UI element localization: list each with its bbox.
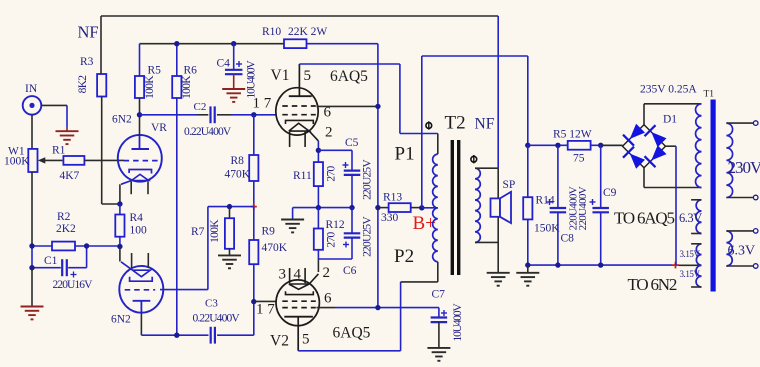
wire VR cathode down xyxy=(119,184,121,204)
label P1 xyxy=(395,144,415,165)
wire R7 top run xyxy=(208,207,254,290)
VR cathode xyxy=(121,170,152,185)
svg-text:270: 270 xyxy=(326,165,338,181)
T2 secondary winding xyxy=(475,168,498,242)
svg-text:R9: R9 xyxy=(262,226,276,238)
triode 6N2 (lower) envelope xyxy=(111,266,163,326)
svg-text:6N2: 6N2 xyxy=(112,114,132,126)
wire R3 to cathode node xyxy=(102,97,120,205)
svg-text:C3: C3 xyxy=(205,298,218,310)
wire cathode rail xyxy=(293,208,353,220)
wire B+ to filter xyxy=(527,56,529,145)
resistor R1 4K7 xyxy=(52,145,84,183)
T1 3.15V winding lower xyxy=(691,265,701,287)
ground (C7) xyxy=(427,348,450,361)
svg-text:D1: D1 xyxy=(663,114,677,126)
svg-text:T1: T1 xyxy=(704,90,715,100)
junction mark R8/R9 (red) xyxy=(251,204,257,210)
svg-text:IN: IN xyxy=(25,83,38,95)
ground (left bottom) xyxy=(21,307,44,320)
svg-text:100K: 100K xyxy=(209,219,221,243)
wire bridge + to rail xyxy=(601,144,623,146)
T1 6.3V heater winding xyxy=(691,200,701,234)
wire bridge AC bottom xyxy=(644,168,702,188)
VR grid (dashed) xyxy=(124,160,159,162)
capacitor C1 220U16V xyxy=(32,246,93,291)
resistor R3 8K2 xyxy=(77,56,106,97)
lower 6N2 cathode xyxy=(121,262,152,281)
wire filter top rail xyxy=(528,144,622,146)
svg-text:100K: 100K xyxy=(181,75,193,99)
svg-text:R14: R14 xyxy=(536,195,555,207)
svg-text:R11: R11 xyxy=(293,170,312,182)
T1 235V winding xyxy=(696,104,702,188)
wire plate to C2 xyxy=(140,114,209,116)
svg-text:220U25V: 220U25V xyxy=(362,159,374,200)
svg-text:100K: 100K xyxy=(4,156,30,168)
svg-text:220U400V: 220U400V xyxy=(577,186,589,230)
wire V1 screen to rail xyxy=(317,105,378,107)
node dot R11/rail xyxy=(316,205,321,210)
svg-text:R5 12W: R5 12W xyxy=(553,129,592,141)
wire NF top run xyxy=(101,16,498,74)
wire V2 cathode node xyxy=(318,250,352,272)
svg-text:R6: R6 xyxy=(184,65,198,77)
V1 heater pins xyxy=(290,132,306,147)
svg-text:270: 270 xyxy=(326,231,338,247)
lower 6N2 plate xyxy=(133,301,151,314)
svg-text:100: 100 xyxy=(130,225,148,237)
svg-text:22K 2W: 22K 2W xyxy=(288,26,327,38)
svg-text:10U400V: 10U400V xyxy=(452,303,464,342)
ground (C4) xyxy=(222,74,245,102)
T2 core xyxy=(452,140,458,275)
pentode V1 6AQ5 envelope xyxy=(271,67,369,135)
svg-text:330: 330 xyxy=(381,212,399,224)
capacitor C5 220U25V xyxy=(318,137,373,208)
wire jack to W1 xyxy=(31,115,33,149)
ground (R7) xyxy=(218,255,241,268)
node dot C9 top xyxy=(598,143,603,148)
wire speaker drop xyxy=(497,168,499,272)
label NF (top left) xyxy=(78,23,99,42)
T1 6.3V secondary winding xyxy=(726,229,758,269)
node dot R4 bottom xyxy=(117,244,122,249)
node dot R8 top xyxy=(251,112,256,117)
wire W1 bottom to R2 node xyxy=(31,172,33,246)
pentode V2 6AQ5 envelope xyxy=(270,280,371,349)
node dot plate/C2 xyxy=(137,112,142,117)
T1 3.15V center tap xyxy=(679,264,702,266)
svg-text:TO 6N2: TO 6N2 xyxy=(628,275,677,294)
svg-text:R10: R10 xyxy=(262,26,281,38)
node dot C5/rail xyxy=(349,205,354,210)
wire to ground left xyxy=(31,268,33,306)
svg-text:VR: VR xyxy=(151,122,167,134)
svg-text:R1: R1 xyxy=(52,145,66,157)
svg-text:6.3V: 6.3V xyxy=(679,211,702,225)
svg-text:5: 5 xyxy=(304,68,312,84)
svg-text:P1: P1 xyxy=(395,144,415,165)
capacitor C8 220U400V xyxy=(547,145,580,265)
T1 core xyxy=(711,100,716,292)
wire jack to ground tap xyxy=(41,105,67,127)
node dot R6/lower plate xyxy=(174,333,179,338)
label B+ (red) xyxy=(413,213,436,234)
resistor R13 330 xyxy=(378,192,422,224)
svg-text:6AQ5: 6AQ5 xyxy=(330,68,368,85)
svg-text:220U16V: 220U16V xyxy=(53,279,94,291)
svg-text:8K2: 8K2 xyxy=(77,75,89,94)
resistor R14 150K xyxy=(523,145,560,265)
capacitor C6 220U25V xyxy=(343,208,374,277)
wire R4 node to lower cathode xyxy=(119,247,121,262)
svg-text:C9: C9 xyxy=(603,187,617,199)
svg-text:75: 75 xyxy=(573,153,585,165)
svg-text:1 7: 1 7 xyxy=(256,301,275,317)
svg-text:3.15V: 3.15V xyxy=(680,269,701,279)
svg-text:4K7: 4K7 xyxy=(60,170,80,182)
node dot rail/C8 xyxy=(555,262,560,267)
node dot R7 top xyxy=(227,204,232,209)
svg-text:6.3V: 6.3V xyxy=(728,244,756,259)
svg-text:C7: C7 xyxy=(432,289,446,301)
potentiometer W1 100K xyxy=(4,146,38,173)
input jack IN xyxy=(23,83,42,115)
capacitor C3 0.22U400V xyxy=(193,298,241,344)
svg-text:10U400V: 10U400V xyxy=(246,60,258,99)
resistor R10 22K 2W xyxy=(262,26,327,48)
node dot V1 screen xyxy=(375,104,380,109)
capacitor C2 0.22U400V xyxy=(184,101,232,138)
svg-text:T2: T2 xyxy=(445,112,466,133)
node dot rail/C9 xyxy=(598,262,603,267)
V2 cathode xyxy=(286,274,319,295)
T2 phase dot (primary) xyxy=(426,121,432,129)
ground (input jack) xyxy=(56,127,79,144)
svg-text:TO 6AQ5: TO 6AQ5 xyxy=(614,209,674,228)
lower 6N2 grid (dashed) xyxy=(125,289,156,291)
svg-text:470K: 470K xyxy=(225,169,251,181)
svg-text:C1: C1 xyxy=(44,255,58,267)
label TO 6N2 xyxy=(628,275,677,294)
node dot R6 top xyxy=(174,41,179,46)
svg-text:V2: V2 xyxy=(270,332,289,349)
svg-text:C5: C5 xyxy=(345,137,359,149)
resistor R8 470K xyxy=(225,115,259,181)
svg-text:1 7: 1 7 xyxy=(253,96,272,112)
node dot V2 grid xyxy=(251,299,256,304)
resistor R2 2K2 xyxy=(52,211,76,250)
node dot W1/R2 xyxy=(29,243,34,248)
resistor R12 270 xyxy=(314,208,345,250)
VR heater pins xyxy=(131,182,148,195)
wire R2 row xyxy=(32,245,120,247)
W1 wiper arrow xyxy=(38,157,63,163)
ground (cathode rail) xyxy=(281,220,304,233)
svg-text:R2: R2 xyxy=(57,211,71,223)
svg-text:R5: R5 xyxy=(148,65,162,77)
capacitor C9 220U400V xyxy=(577,145,617,265)
svg-text:3: 3 xyxy=(279,267,287,283)
svg-text:P2: P2 xyxy=(394,246,414,267)
V1 screen grid (dashed) xyxy=(282,105,316,107)
V2 heater pins xyxy=(290,268,306,283)
svg-text:0.22U400V: 0.22U400V xyxy=(193,312,241,324)
T1 230V primary winding xyxy=(726,121,758,200)
svg-text:235V 0.25A: 235V 0.25A xyxy=(640,84,697,96)
wire B+ riser xyxy=(422,56,528,208)
label TO 6AQ5 xyxy=(614,209,674,228)
wire R9 bottom to grid node xyxy=(253,264,255,301)
svg-text:0.22U400V: 0.22U400V xyxy=(184,126,232,138)
svg-text:2: 2 xyxy=(325,125,333,141)
node dot C5 top xyxy=(316,148,321,153)
wire screen rail (R10 to V2) xyxy=(377,44,379,308)
V2 pin labels xyxy=(256,265,332,348)
resistor R6 100K xyxy=(172,44,197,99)
V1 pin labels xyxy=(253,68,333,141)
T2 primary winding xyxy=(422,134,438,282)
svg-text:220U25V: 220U25V xyxy=(362,216,374,257)
wire lower plate to C3 xyxy=(141,314,208,336)
wire C3 to V2 grid node xyxy=(217,302,254,336)
wire R5 to plate node xyxy=(139,98,141,136)
capacitor C4 10U400V xyxy=(217,44,258,99)
wire R8 bottom xyxy=(253,181,255,207)
wire V2 plate to P2 xyxy=(298,282,438,351)
svg-text:R7: R7 xyxy=(191,226,205,238)
resistor R4 100 xyxy=(115,204,147,247)
wire preamp B+ rail xyxy=(140,43,285,45)
label 235V 0.25A xyxy=(640,84,697,96)
svg-text:C6: C6 xyxy=(343,265,357,277)
label 6.3V (secondary) xyxy=(728,244,756,259)
capacitor C7 10U400V xyxy=(431,289,464,342)
svg-text:6: 6 xyxy=(324,290,332,306)
wire V1 plate to P1 xyxy=(299,64,437,134)
ground (PSU rail) xyxy=(516,265,539,286)
ground (speaker) xyxy=(487,273,510,286)
V1 control grid (dashed) xyxy=(282,114,316,116)
svg-text:R13: R13 xyxy=(383,192,402,204)
svg-text:C8: C8 xyxy=(561,233,575,245)
wire grid node to V2 xyxy=(254,300,277,302)
resistor R11 270 xyxy=(293,162,338,186)
V1 cathode xyxy=(286,120,319,140)
svg-text:R4: R4 xyxy=(130,212,144,224)
resistor R7 100K xyxy=(191,207,234,256)
V2 control grid (dashed) xyxy=(282,300,316,302)
V2 plate xyxy=(284,317,313,351)
svg-text:SP: SP xyxy=(503,179,516,191)
wire V1 cathode down xyxy=(317,141,319,162)
label P2 xyxy=(394,246,414,267)
svg-text:NF: NF xyxy=(475,115,495,132)
wire R6 to lower plate line xyxy=(176,98,178,335)
label T1 xyxy=(704,90,715,100)
svg-text:C2: C2 xyxy=(194,101,207,113)
wire C2 to V1 grid xyxy=(217,114,277,116)
svg-text:2K2: 2K2 xyxy=(56,223,76,235)
svg-text:5: 5 xyxy=(302,332,310,348)
svg-text:4: 4 xyxy=(294,267,302,283)
junction mark heater CT (red) xyxy=(672,262,679,269)
label T2 xyxy=(445,112,466,133)
node dot V2 screen xyxy=(375,305,380,310)
svg-text:470K: 470K xyxy=(262,242,288,254)
svg-text:3.15V: 3.15V xyxy=(680,249,701,259)
resistor R5 100K xyxy=(135,44,161,99)
svg-text:V1: V1 xyxy=(271,67,290,84)
wire bridge minus xyxy=(666,146,677,265)
svg-text:R12: R12 xyxy=(326,219,345,231)
node dot R2/C1 right xyxy=(84,243,89,248)
wire R1 to 6N2 grid xyxy=(84,159,124,161)
wire R11 bottom xyxy=(317,186,319,208)
node dot filter left xyxy=(525,143,530,148)
svg-text:C4: C4 xyxy=(217,58,231,70)
VR plate xyxy=(132,136,150,149)
label 3.15V lower xyxy=(680,269,701,279)
V1 plate xyxy=(289,64,312,96)
node dot screen/R13 xyxy=(375,205,380,210)
node dot C1 branch xyxy=(29,265,34,270)
speaker SP xyxy=(491,179,516,223)
triode VR 6N2 envelope xyxy=(112,114,167,182)
bridge rectifier D1 xyxy=(623,114,678,169)
svg-text:6N2: 6N2 xyxy=(111,314,131,326)
label 3.15V upper xyxy=(680,249,701,259)
wire ground rail xyxy=(528,264,672,266)
wire R10 right xyxy=(307,43,378,45)
svg-text:NF: NF xyxy=(78,23,99,42)
node dot C4 top xyxy=(231,41,236,46)
node dot cathode/R3/R4 xyxy=(117,201,122,206)
T1 3.15V winding upper xyxy=(691,244,701,265)
lower 6N2 heater pins xyxy=(132,253,149,268)
svg-text:2: 2 xyxy=(323,265,331,281)
label 230V xyxy=(728,158,760,177)
wire C7 to ground xyxy=(438,322,440,348)
label 6.3V (heater) xyxy=(679,211,702,225)
svg-text:R3: R3 xyxy=(80,56,94,68)
V2 screen grid (dashed) xyxy=(282,307,316,309)
resistor R9 470K xyxy=(249,207,288,265)
label NF (T2) xyxy=(475,115,495,132)
wire V2 screen to C7 xyxy=(317,307,439,309)
wire lower grid to divider xyxy=(160,289,208,291)
node dot C8 top xyxy=(555,143,560,148)
svg-text:6AQ5: 6AQ5 xyxy=(333,324,371,341)
wire NF feedback xyxy=(497,16,499,168)
svg-text:150K: 150K xyxy=(534,223,560,235)
svg-text:230V: 230V xyxy=(728,158,760,177)
node dot B+ center tap xyxy=(419,205,424,210)
T2 phase dot (secondary) xyxy=(471,155,477,163)
resistor R5 75 12W xyxy=(553,129,592,165)
wire bridge AC top xyxy=(644,104,702,125)
svg-text:100K: 100K xyxy=(144,75,156,99)
svg-text:R8: R8 xyxy=(231,155,245,167)
node dot rail/R14 xyxy=(525,262,530,267)
